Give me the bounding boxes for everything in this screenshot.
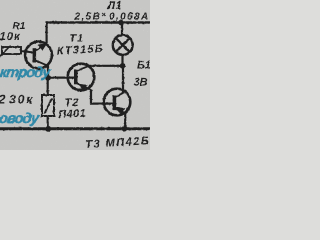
paper background — [0, 0, 150, 150]
wire: node A to T2 base — [48, 76, 75, 78]
film grain overlay — [0, 0, 150, 150]
wire: node B down to T3 collector — [122, 66, 124, 94]
wire: T1 collector down to node A — [47, 66, 49, 79]
label Л1 — [107, 0, 123, 12]
wire: top-left corner down to T1 emitter — [45, 21, 47, 43]
wire: R1 to T1 base — [21, 51, 34, 53]
node B junction dot — [120, 63, 126, 69]
junction dot R2/bottom rail — [45, 126, 51, 132]
blue annotation "ктроду" — [0, 65, 52, 81]
label Б1 — [137, 60, 151, 72]
junction dot lamp/top rail — [118, 20, 123, 25]
label КТ315Б — [57, 43, 105, 57]
label R1 — [13, 21, 26, 32]
label R2 30к — [0, 93, 34, 107]
label 10к — [0, 31, 21, 43]
junction dot T3/bottom rail — [122, 126, 128, 132]
lamp L1 — [113, 35, 133, 55]
wire: R2 to bottom rail — [47, 116, 49, 129]
label 2,5В x 0,068А — [74, 10, 150, 23]
wire: node A down to R2 — [47, 78, 49, 96]
transistor T3 — [104, 89, 131, 116]
transistor T2 — [68, 64, 95, 92]
label П401 — [58, 108, 86, 121]
wire: T2 emitter to T3 base — [91, 90, 114, 104]
resistor R1 — [0, 46, 21, 58]
label T1 — [70, 33, 85, 45]
wire: bottom rail — [0, 127, 150, 130]
label T2 — [65, 97, 80, 109]
wire: top rail to lamp — [121, 23, 123, 36]
node A junction dot — [45, 75, 51, 81]
transistor T1 — [25, 42, 52, 69]
resistor R2 — [42, 95, 54, 116]
label T3 МП42Б — [85, 135, 151, 151]
label 3В — [134, 77, 148, 89]
wire: T2 collector to node B — [89, 65, 123, 67]
wire: lamp to node B — [121, 55, 123, 66]
wire: top supply rail — [46, 21, 151, 23]
wire: T3 emitter to bottom rail — [124, 113, 126, 129]
blue annotation "оводу" — [0, 111, 41, 127]
